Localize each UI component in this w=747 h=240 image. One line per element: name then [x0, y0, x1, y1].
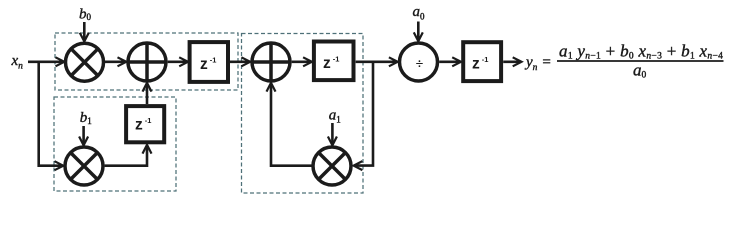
divider D1	[400, 43, 438, 81]
svg-text:a1 yn−1 + b0 xn−3 + b1 xn−4: a1 yn−1 + b0 xn−3 + b1 xn−4	[559, 42, 723, 62]
wire b0 down into multiplier	[83, 22, 86, 41]
wire A2 to z2	[292, 60, 312, 63]
multiplier X3 (a1)	[313, 147, 351, 185]
svg-text:-1: -1	[482, 55, 489, 64]
delay block z2	[314, 42, 354, 81]
wire z1 to adder A2	[230, 60, 250, 63]
svg-text:-1: -1	[145, 116, 152, 125]
wire z3 to output	[503, 60, 521, 63]
wire x_n input	[28, 60, 64, 63]
wire a0 down into divider	[417, 22, 420, 41]
wire a1 down into multiplier	[331, 123, 334, 145]
svg-text:-1: -1	[333, 55, 340, 64]
svg-text:÷: ÷	[416, 57, 424, 72]
delay block z1	[190, 42, 228, 82]
wire A1 to z1	[168, 60, 188, 63]
multiplier X2 (b1)	[65, 147, 103, 185]
wire X2 output to z4 bottom	[105, 145, 147, 166]
formula fraction bar	[557, 60, 724, 62]
svg-text:z: z	[323, 55, 331, 72]
wire x_n branch down to b1 multiplier	[39, 62, 63, 166]
multiplier X1 (b0)	[66, 43, 104, 81]
wire feedback branch down from main line	[354, 62, 373, 166]
dashed section box 1 (top-left biquad feedforward)	[55, 33, 238, 90]
svg-text:z: z	[472, 56, 480, 73]
svg-text:z: z	[135, 117, 143, 134]
wire divider to z3	[439, 60, 461, 63]
wire z2 to divider	[356, 60, 398, 63]
wire X3 output to adder A2 bottom	[271, 83, 312, 166]
adder A2	[252, 43, 290, 81]
delay block z3	[463, 42, 501, 81]
svg-text:-1: -1	[210, 56, 217, 65]
dashed section box 3 (second stage with feedback)	[242, 34, 364, 194]
wire X1 to adder A1	[105, 60, 126, 63]
dashed section box 2 (lower-left b1 branch)	[54, 97, 176, 191]
delay block z4	[126, 106, 164, 142]
adder A1	[128, 43, 166, 81]
wire z4 top up to adder A1 bottom	[146, 83, 149, 104]
svg-text:z: z	[200, 56, 208, 73]
wire b1 down into multiplier	[82, 126, 85, 145]
